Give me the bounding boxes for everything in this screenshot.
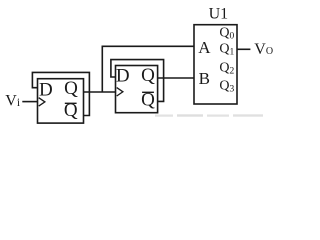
svg-text:B: B (199, 69, 210, 88)
flip-flop 2 pin label Q-bar (141, 89, 155, 110)
flip-flop 1 box (38, 79, 84, 123)
wire flip-flop 1 Q output to flip-flop 2 clock (84, 91, 116, 93)
flip-flop 2 box (116, 66, 158, 113)
wire Vi to flip-flop 1 clock (22, 101, 37, 103)
wire U1 output Q1 to Vo (237, 48, 250, 50)
flip-flop 1 pin label Q-bar (64, 100, 78, 121)
svg-text:Q: Q (141, 65, 155, 86)
svg-text:A: A (198, 38, 211, 57)
flip-flop 1 clock triangle (39, 98, 45, 106)
svg-text:U1: U1 (209, 6, 229, 23)
decoder U1 box (194, 25, 237, 104)
svg-text:Q: Q (64, 78, 78, 99)
flip-flop 2 clock triangle (117, 88, 123, 96)
wire flip-flop 1 Q-bar feedback to D input (32, 72, 89, 115)
wire flip-flop 2 Q-bar feedback to D input (111, 60, 164, 102)
svg-text:D: D (116, 66, 130, 87)
wire flip-flop 2 Q output to U1 input B (158, 77, 194, 79)
wire flip-flop 1 Q to U1 input A (102, 46, 194, 92)
svg-text:D: D (39, 79, 53, 100)
